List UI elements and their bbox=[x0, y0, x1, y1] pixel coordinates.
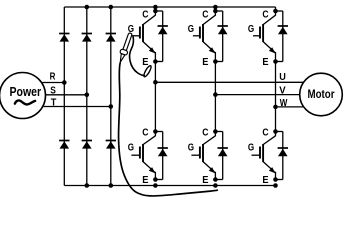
svg-text:C: C bbox=[142, 9, 149, 21]
svg-text:Motor: Motor bbox=[308, 87, 335, 101]
svg-text:G: G bbox=[188, 142, 194, 154]
node top bus / leg S junction bbox=[85, 5, 90, 10]
freehand stroke drawn by pen (down left side, sweeping along bottom) bbox=[119, 63, 218, 196]
node emitter junction of Q4 (U phase low side) bbox=[153, 177, 158, 182]
node collector junction of Q2 (V phase high side) bbox=[213, 9, 218, 14]
wire positive DC bus (top) bbox=[64, 6, 275, 8]
wire U phase leg (Q1 emitter to Q4 collector) bbox=[154, 62, 156, 132]
diode D9 (free-wheel, anti-parallel with Q3 (W phase high side)) bbox=[276, 11, 289, 62]
svg-text:C: C bbox=[262, 9, 269, 21]
node T input junction bbox=[109, 104, 114, 109]
node bottom bus / leg S junction bbox=[85, 183, 90, 188]
node collector junction of Q3 (W phase high side) bbox=[273, 9, 278, 14]
svg-text:E: E bbox=[262, 56, 268, 68]
diode D4 (lower arm, R) bbox=[59, 140, 69, 142]
svg-text:E: E bbox=[142, 56, 148, 68]
node bottom bus / Q5 leg bbox=[213, 183, 218, 188]
node top bus / Q1 leg bbox=[153, 5, 158, 10]
AC power source circle bbox=[0, 73, 46, 119]
wire T phase input bbox=[44, 106, 111, 108]
node emitter junction of Q5 (V phase low side) bbox=[213, 177, 218, 182]
wire rectifier leg T bbox=[110, 7, 112, 186]
wire V phase leg (Q2 emitter to Q5 collector) bbox=[214, 62, 216, 132]
node S input junction bbox=[85, 93, 90, 98]
wire V output to motor bbox=[215, 94, 299, 96]
diode D7 (free-wheel, anti-parallel with Q1 (U phase high side)) bbox=[155, 11, 168, 62]
svg-text:C: C bbox=[202, 127, 209, 139]
svg-text:S: S bbox=[50, 85, 56, 97]
node collector junction of Q6 (W phase low side) bbox=[273, 129, 278, 134]
freehand lasso stroke looping at emitter of Q1 bbox=[130, 36, 145, 76]
diode D3 (upper arm, T) bbox=[106, 33, 116, 35]
svg-text:E: E bbox=[142, 174, 148, 186]
pen ferrule band bbox=[120, 49, 129, 56]
node collector junction of Q5 (V phase low side) bbox=[213, 129, 218, 134]
node collector junction of Q4 (U phase low side) bbox=[153, 129, 158, 134]
node bottom bus / Q4 leg bbox=[153, 183, 158, 188]
IGBT Q1 (U phase high side) bbox=[133, 7, 156, 62]
svg-text:W: W bbox=[280, 97, 288, 109]
freehand loop around emitter terminal bbox=[143, 65, 153, 78]
diode D8 (free-wheel, anti-parallel with Q2 (V phase high side)) bbox=[215, 11, 228, 62]
diode D2 (upper arm, S) bbox=[82, 33, 92, 35]
wire rectifier leg R bbox=[63, 7, 65, 186]
node R input junction bbox=[62, 80, 67, 85]
IGBT Q3 (W phase high side) bbox=[253, 7, 276, 62]
wire W output to motor bbox=[276, 106, 304, 108]
node U junction bbox=[153, 80, 158, 85]
diode D10 (free-wheel, anti-parallel with Q4 (U phase low side)) bbox=[155, 132, 168, 180]
AC sine symbol bbox=[15, 100, 35, 104]
node bottom bus / leg T junction bbox=[109, 183, 114, 188]
diode D1 (upper arm, R) bbox=[59, 33, 69, 35]
node V junction bbox=[213, 92, 218, 97]
node top bus / Q2 leg bbox=[213, 5, 218, 10]
node emitter junction of Q6 (W phase low side) bbox=[273, 177, 278, 182]
node W junction bbox=[273, 105, 278, 110]
svg-text:G: G bbox=[248, 142, 254, 154]
node collector junction of Q1 (U phase high side) bbox=[153, 9, 158, 14]
node top bus / leg T junction bbox=[109, 5, 114, 10]
IGBT Q5 (V phase low side) bbox=[191, 132, 215, 180]
svg-text:G: G bbox=[188, 23, 194, 35]
svg-text:C: C bbox=[202, 9, 209, 21]
wire S phase input bbox=[46, 94, 87, 96]
svg-text:E: E bbox=[202, 174, 208, 186]
node emitter junction of Q1 (U phase high side) bbox=[153, 59, 158, 64]
IGBT Q6 (W phase low side) bbox=[252, 132, 276, 180]
svg-text:E: E bbox=[262, 174, 268, 186]
svg-text:Power: Power bbox=[10, 85, 42, 99]
pen tip cone bbox=[118, 54, 124, 63]
IGBT Q4 (U phase low side) bbox=[131, 132, 155, 180]
svg-text:G: G bbox=[248, 23, 254, 35]
wire W phase leg (Q3 emitter to Q6 collector) bbox=[275, 62, 277, 132]
svg-text:T: T bbox=[51, 96, 57, 108]
wire negative DC bus (bottom) bbox=[64, 185, 275, 187]
svg-text:G: G bbox=[128, 142, 134, 154]
pen (stylus) body bbox=[117, 32, 134, 64]
diode D6 (lower arm, T) bbox=[106, 140, 116, 142]
svg-text:U: U bbox=[279, 71, 286, 83]
svg-text:C: C bbox=[262, 127, 269, 139]
diode D11 (free-wheel, anti-parallel with Q5 (V phase low side)) bbox=[215, 132, 228, 180]
wire R phase input bbox=[42, 82, 64, 84]
svg-text:V: V bbox=[279, 84, 285, 96]
motor circle M bbox=[300, 73, 343, 116]
svg-text:C: C bbox=[142, 127, 149, 139]
IGBT Q2 (V phase high side) bbox=[193, 7, 216, 62]
wire U output to motor bbox=[155, 81, 303, 83]
node emitter junction of Q3 (W phase high side) bbox=[273, 59, 278, 64]
node emitter junction of Q2 (V phase high side) bbox=[213, 59, 218, 64]
diode D12 (free-wheel, anti-parallel with Q6 (W phase low side)) bbox=[276, 132, 289, 180]
svg-text:R: R bbox=[50, 70, 56, 82]
svg-text:E: E bbox=[202, 56, 208, 68]
wire rectifier leg S bbox=[86, 7, 88, 186]
node bottom bus / Q6 leg bbox=[273, 183, 278, 188]
diode D5 (lower arm, S) bbox=[82, 140, 92, 142]
